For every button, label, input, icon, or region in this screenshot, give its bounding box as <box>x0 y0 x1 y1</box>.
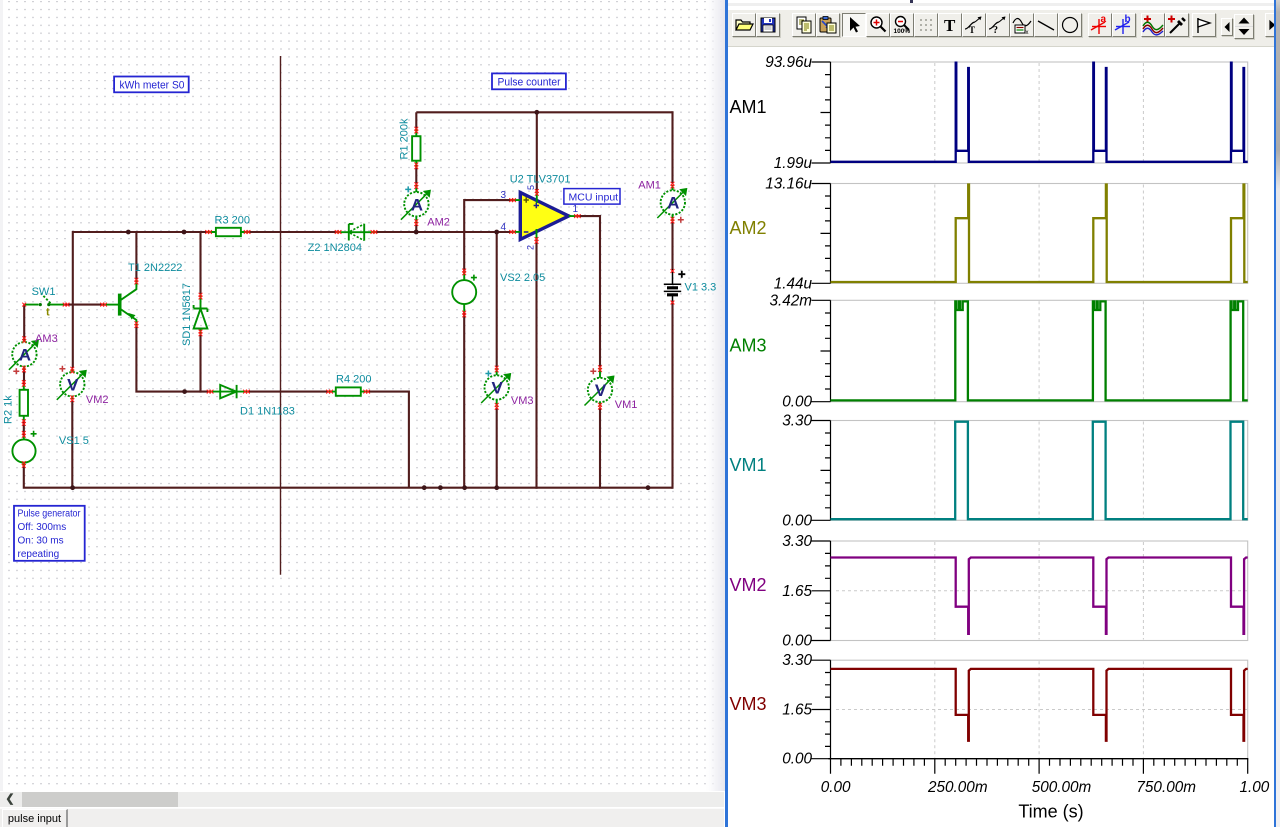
wire VS2 to bottom rail <box>463 312 465 489</box>
svg-text:4: 4 <box>500 222 506 233</box>
pin SD1 top <box>199 293 203 300</box>
wire rail corner to R1 <box>415 112 417 128</box>
svg-text:0.00: 0.00 <box>782 751 812 768</box>
ammeter AM1 <box>657 185 686 221</box>
plus AM3 <box>13 368 19 374</box>
plot frame AM3 <box>812 300 1248 401</box>
svg-text:AM3: AM3 <box>730 336 767 356</box>
trace VM3 <box>831 669 1248 741</box>
node dot VS2 ground <box>462 485 467 490</box>
pin T1 emitter <box>135 321 139 328</box>
svg-text:Z2 1N2804: Z2 1N2804 <box>308 242 362 254</box>
transistor T1 2N2222 <box>104 279 137 327</box>
pin R3 left <box>205 230 212 234</box>
svg-text:AM1: AM1 <box>638 180 661 192</box>
x axis <box>828 759 1248 774</box>
pin VM3 top <box>495 366 499 373</box>
voltmeter VM3 <box>481 369 510 407</box>
svg-text:V: V <box>595 381 607 400</box>
wire SD1 top <box>199 231 201 294</box>
wire R2 to VS1 <box>23 420 25 436</box>
pin V1 top <box>671 269 675 273</box>
svg-text:R4 200: R4 200 <box>336 374 371 386</box>
node dot ground c <box>646 485 651 490</box>
wire VS1 to bottom rail corner <box>24 463 424 488</box>
node dot AM2 output <box>414 230 419 235</box>
svg-text:VM1: VM1 <box>730 455 767 475</box>
pin VM1 top <box>598 365 602 372</box>
svg-text:VM2: VM2 <box>86 394 109 406</box>
trace VM2 <box>831 558 1248 634</box>
wire D1 to R4 <box>249 391 328 393</box>
pin T1 base <box>100 303 107 307</box>
pin VM1 bottom <box>598 403 602 410</box>
wire top rail left section <box>73 231 207 233</box>
pin VM2 bottom <box>70 395 74 402</box>
node dot ground a <box>422 485 427 490</box>
svg-text:1.00: 1.00 <box>1240 779 1270 796</box>
pin opamp 1 <box>574 214 581 218</box>
toolbar button page right <box>1265 13 1278 37</box>
pin opamp 4 <box>509 230 516 234</box>
toolbar button text <box>938 13 962 37</box>
pin AM3 bottom <box>22 366 26 373</box>
pin opamp 5 <box>535 189 539 196</box>
wire bottom rail middle <box>424 487 673 489</box>
wire opamp output to VM1 <box>577 216 600 366</box>
node dot VM2 ground <box>70 485 75 490</box>
battery V1 <box>664 269 686 301</box>
switch SW1 <box>24 294 64 307</box>
toolbar button zoom in <box>866 13 890 37</box>
svg-text:13.16u: 13.16u <box>765 176 812 193</box>
wire Z2 to opamp pin4 <box>376 231 512 233</box>
svg-text:t: t <box>46 307 50 319</box>
node dot emitter rail <box>182 389 187 394</box>
resistor R4 <box>328 387 369 395</box>
x axis labels <box>821 779 1270 796</box>
pin R4 right <box>363 390 370 394</box>
pin VM2 top <box>70 367 74 374</box>
svg-text:VM2: VM2 <box>730 575 767 595</box>
annotation box MCU input <box>564 189 620 205</box>
svg-text:1.65: 1.65 <box>782 701 812 718</box>
svg-text:5: 5 <box>526 185 536 190</box>
pin R3 right <box>244 230 251 234</box>
svg-text:A: A <box>411 195 423 214</box>
toolbar button legend <box>1010 13 1034 37</box>
svg-text:AM3: AM3 <box>35 333 58 345</box>
pin V1 bottom <box>671 301 675 305</box>
svg-text:VM1: VM1 <box>615 399 638 411</box>
wire AM3 to R2 <box>23 367 25 385</box>
svg-text:A: A <box>19 345 31 364</box>
trace AM2 <box>831 185 1248 283</box>
svg-text:U2 TLV3701: U2 TLV3701 <box>510 174 571 186</box>
y axis value labels <box>765 54 812 768</box>
node dot VM3 ground <box>494 485 499 490</box>
wire top rail to AM1 <box>671 111 673 183</box>
toolbar button flag <box>1192 13 1216 37</box>
wire T1 collector up <box>135 232 137 279</box>
pin VS1 top <box>22 431 26 438</box>
wire SW1 to T1 base <box>64 304 104 306</box>
toolbar button page left <box>1221 18 1233 36</box>
pin SW1 left <box>22 303 26 307</box>
toolbar button zoom 100 <box>890 13 914 37</box>
svg-text:T: T <box>969 25 975 35</box>
svg-text:T: T <box>944 16 956 35</box>
wire SW1 left pin down to AM3 <box>23 305 25 341</box>
svg-text:R1 200k: R1 200k <box>399 118 411 159</box>
source VS2 <box>452 272 477 312</box>
svg-text:93.96u: 93.96u <box>765 54 812 71</box>
resistor R2 <box>20 385 28 420</box>
plot frame AM1 <box>812 62 1248 163</box>
wire AM2 to node <box>415 225 417 234</box>
svg-text:Off: 300ms: Off: 300ms <box>18 522 67 533</box>
wire SD1 bottom <box>199 335 201 393</box>
pin Z2 right <box>371 230 378 234</box>
plus AM2 <box>405 186 411 192</box>
svg-text:AM1: AM1 <box>730 97 767 117</box>
wire node to VM3 <box>496 231 498 367</box>
annotation box Pulse counter <box>492 73 566 89</box>
plot frame AM2 <box>812 184 1248 284</box>
svg-text:3.30: 3.30 <box>782 652 812 669</box>
svg-text:0.00: 0.00 <box>821 779 851 796</box>
svg-text:a: a <box>1101 14 1107 25</box>
pin SW1 right <box>63 303 70 307</box>
svg-text:1: 1 <box>573 204 579 215</box>
wire VM3 to bottom rail <box>496 408 498 489</box>
svg-text:3.30: 3.30 <box>782 413 812 430</box>
toolbar button grid disabled <box>914 13 938 37</box>
svg-text:Pulse counter: Pulse counter <box>498 77 561 89</box>
wire pulse counter top rail <box>416 111 672 113</box>
svg-text:3.30: 3.30 <box>782 533 812 550</box>
wire VM2 bottom to bottom rail <box>71 401 73 489</box>
toolbar button open <box>732 13 756 37</box>
svg-text:0.00: 0.00 <box>782 394 812 411</box>
svg-text:A: A <box>667 194 679 213</box>
node dot rail1 a <box>126 230 131 235</box>
toolbar button curve query <box>986 13 1010 37</box>
pin D1 left <box>207 390 214 394</box>
pin R1 top <box>414 127 418 134</box>
svg-text:250.00m: 250.00m <box>927 779 988 796</box>
svg-text:1.99u: 1.99u <box>774 155 813 172</box>
pin AM1 top <box>671 182 675 189</box>
svg-text:SD1 1N5817: SD1 1N5817 <box>181 283 193 346</box>
diode SD1 schottky <box>194 294 208 335</box>
wire AM1 to V1 <box>671 222 673 269</box>
op-amp U2 TLV3701 <box>513 192 578 240</box>
toolbar button cursor a <box>1088 13 1112 37</box>
plus VM2 <box>59 366 65 372</box>
wire T1 emitter down to emitter rail <box>136 327 208 392</box>
toolbar button curve label <box>962 13 986 37</box>
node dot opamp power <box>534 110 539 115</box>
pin Z2 left <box>335 230 342 234</box>
wire opamp pin3 from left <box>464 200 512 272</box>
toolbar button spinner <box>1234 14 1254 39</box>
curve name labels <box>730 97 767 714</box>
svg-text:b: b <box>1125 14 1131 25</box>
toolbar button cursor b <box>1112 13 1136 37</box>
ammeter AM2 <box>401 185 430 223</box>
pin R4 left <box>326 390 333 394</box>
plot frame VM1 <box>812 421 1248 521</box>
wire V1 to bottom rail <box>671 301 673 489</box>
wire VM1 to bottom rail <box>599 408 601 489</box>
toolbar button line <box>1034 13 1058 37</box>
voltmeter VM2 <box>57 370 86 400</box>
pin T1 collector <box>135 278 139 285</box>
svg-text:?: ? <box>993 25 998 36</box>
svg-text:x: x <box>1026 30 1029 36</box>
trace AM3 <box>831 301 1248 400</box>
voltmeter VM1 <box>585 368 614 406</box>
svg-text:kWh meter S0: kWh meter S0 <box>120 80 185 92</box>
toolbar button cursor pressed <box>842 13 866 37</box>
pin SD1 bottom <box>199 330 203 337</box>
toolbar button add curves <box>1141 13 1165 37</box>
pin R2 top <box>22 380 26 387</box>
svg-text:1.65: 1.65 <box>782 583 812 600</box>
source VS1 <box>12 431 36 466</box>
pin R2 bottom <box>22 419 26 426</box>
pin VM3 bottom <box>495 403 499 410</box>
ammeter AM3 <box>9 340 38 370</box>
toolbar button circle <box>1058 13 1082 37</box>
pin D1 right <box>243 390 250 394</box>
svg-text:VM3: VM3 <box>730 694 767 714</box>
plot frame VM2 <box>812 541 1248 641</box>
svg-text:AM2: AM2 <box>427 217 450 229</box>
wire opamp pin5 power <box>536 112 538 192</box>
resistor R1 <box>412 128 420 168</box>
svg-text:repeating: repeating <box>18 549 60 560</box>
trace VM1 <box>831 422 1248 520</box>
svg-text:VS2 2.05: VS2 2.05 <box>500 272 545 284</box>
pin VS2 bottom <box>462 311 466 318</box>
wire R3 to Z2 <box>249 231 336 233</box>
toolbar button picker <box>1165 13 1189 37</box>
toolbar button save <box>756 13 780 37</box>
svg-text:AM2: AM2 <box>730 218 767 238</box>
svg-text:0.00: 0.00 <box>782 512 812 529</box>
svg-text:3: 3 <box>500 190 506 201</box>
plus VM1 <box>590 368 596 374</box>
pin AM3 top <box>22 336 26 343</box>
pin R1 bottom <box>414 163 418 170</box>
pin opamp 2 <box>535 237 539 244</box>
pin VS2 top <box>462 269 466 276</box>
svg-text:100%: 100% <box>894 28 911 35</box>
pin opamp 3 <box>509 198 516 202</box>
svg-text:2: 2 <box>526 245 536 250</box>
svg-text:On: 30 ms: On: 30 ms <box>18 536 64 547</box>
svg-text:R3 200: R3 200 <box>215 215 250 227</box>
window title fragment <box>910 0 913 5</box>
svg-text:V: V <box>67 375 79 394</box>
plus AM1 <box>678 217 684 223</box>
svg-text:0.00: 0.00 <box>782 633 812 650</box>
diode D1 <box>208 385 248 398</box>
pin AM2 top <box>414 182 418 189</box>
wire opamp pin2 to bottom rail <box>535 240 537 488</box>
svg-text:750.00m: 750.00m <box>1136 779 1196 796</box>
wire R4 right corner down to bottom rail <box>369 392 409 488</box>
svg-text:VM3: VM3 <box>511 395 534 407</box>
svg-text:Time (s): Time (s) <box>1018 802 1083 822</box>
node dot rail1 b <box>182 230 187 235</box>
pin VS1 bottom <box>22 461 26 468</box>
plus VM3 <box>485 371 491 377</box>
plot frame VM3 <box>812 660 1248 759</box>
svg-text:3.42m: 3.42m <box>769 292 812 309</box>
svg-text:MCU input: MCU input <box>569 192 619 204</box>
wire R1 to AM2 <box>415 168 417 184</box>
node dot VM3 branch <box>494 230 499 235</box>
svg-text:1.44u: 1.44u <box>774 275 813 292</box>
divider line <box>280 56 282 575</box>
svg-text:V: V <box>492 379 504 398</box>
resistor R3 <box>207 228 250 236</box>
svg-text:Pulse generator: Pulse generator <box>18 509 82 520</box>
toolbar button copy <box>792 13 816 37</box>
diode Z2 TVS <box>336 224 376 241</box>
toolbar button paste <box>816 13 840 37</box>
svg-text:500.00m: 500.00m <box>1032 779 1092 796</box>
wire left vertical from rail to VM2 <box>72 231 74 368</box>
pin AM2 bottom <box>414 219 418 226</box>
svg-text:VS1 5: VS1 5 <box>59 435 89 447</box>
svg-text:D1 1N1183: D1 1N1183 <box>240 406 295 418</box>
svg-text:SW1: SW1 <box>32 286 56 298</box>
trace AM1 <box>831 63 1248 162</box>
annotation box Pulse generator <box>14 506 85 561</box>
node dot ground b <box>438 485 443 490</box>
svg-text:R2 1k: R2 1k <box>3 395 15 424</box>
svg-text:T1 2N2222: T1 2N2222 <box>128 262 182 274</box>
pin AM1 bottom <box>671 217 675 224</box>
annotation box kWh meter S0 <box>114 77 189 93</box>
svg-text:V1 3.3: V1 3.3 <box>685 282 717 294</box>
